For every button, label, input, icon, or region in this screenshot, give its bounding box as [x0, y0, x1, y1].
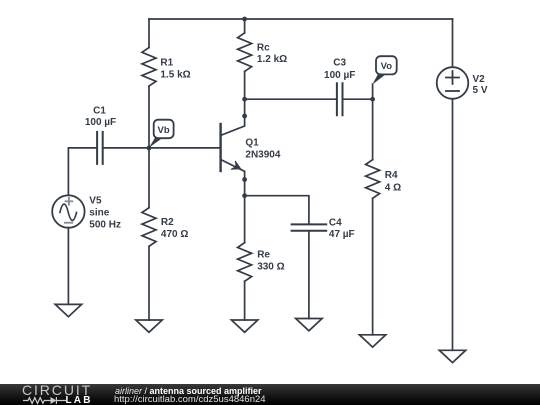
svg-text:Re: Re	[257, 250, 270, 261]
svg-text:5 V: 5 V	[473, 85, 488, 96]
node Vb dot	[147, 146, 152, 151]
wire R4 top lead	[372, 99, 374, 160]
wire emitter to junction	[244, 180, 246, 196]
svg-text:500 Hz: 500 Hz	[89, 220, 121, 231]
wire V2 bottom lead	[452, 99, 454, 350]
wire C4 bottom lead	[308, 232, 310, 319]
svg-text:C1: C1	[93, 105, 106, 116]
svg-text:100 µF: 100 µF	[85, 117, 116, 128]
ground V5	[55, 304, 81, 316]
label V2	[473, 74, 488, 96]
capacitor C3	[337, 83, 343, 115]
svg-text:V5: V5	[89, 195, 102, 206]
resistor R4	[366, 160, 380, 199]
label C3	[324, 58, 355, 81]
source V5	[52, 195, 84, 227]
label Q1	[245, 138, 280, 161]
transistor Q1	[221, 116, 245, 180]
wire Rc node to C3	[245, 98, 337, 100]
wire R4 bottom lead	[372, 198, 374, 334]
wire Vo stub	[372, 84, 374, 99]
source V2	[437, 67, 469, 99]
url line	[114, 394, 266, 405]
wire top rail	[149, 18, 453, 20]
svg-text:47 µF: 47 µF	[329, 229, 355, 240]
wire Rc top lead	[244, 19, 246, 33]
wire R2 top lead	[148, 148, 150, 208]
svg-text:Vo: Vo	[381, 61, 393, 72]
resistor R1	[142, 48, 156, 87]
label R4	[385, 170, 401, 193]
wire emitter to C4	[245, 196, 309, 224]
ground V2	[439, 350, 465, 362]
resistor Re	[238, 243, 252, 282]
wire C1 left lead	[68, 148, 97, 195]
wire Rc bottom lead	[244, 72, 246, 100]
ground C4	[296, 319, 322, 331]
svg-text:1.5 kΩ: 1.5 kΩ	[160, 70, 190, 81]
svg-text:100 µF: 100 µF	[324, 70, 355, 81]
node dot top rail	[242, 17, 247, 22]
wire R1 bottom lead to node Vb	[148, 86, 150, 148]
svg-text:C3: C3	[333, 58, 346, 69]
svg-text:R2: R2	[161, 217, 174, 228]
logo resistor-diode symbol	[23, 396, 67, 405]
capacitor C1	[97, 132, 103, 164]
resistor Rc	[238, 33, 252, 72]
capacitor C4	[292, 224, 327, 230]
label V5	[89, 195, 121, 230]
ground R2	[136, 320, 162, 332]
node dot collector	[242, 114, 247, 119]
label Rc	[257, 43, 287, 65]
svg-text:R4: R4	[385, 170, 398, 181]
svg-text:Rc: Rc	[257, 43, 270, 54]
flag Vb	[149, 120, 174, 148]
wire Re bottom lead	[244, 281, 246, 320]
svg-text:V2: V2	[473, 74, 486, 85]
ground Re	[231, 320, 257, 332]
wire R1 top lead	[148, 19, 150, 48]
svg-text:1.2 kΩ: 1.2 kΩ	[257, 54, 287, 65]
label Re	[257, 250, 284, 273]
node dot emitter	[242, 177, 247, 182]
svg-text:2N3904: 2N3904	[245, 149, 280, 160]
svg-text:sine: sine	[89, 207, 109, 218]
label R2	[161, 217, 188, 240]
title line	[115, 386, 262, 396]
svg-text:470 Ω: 470 Ω	[161, 229, 188, 240]
wire V5 bottom lead	[67, 228, 69, 305]
wire Re top lead	[244, 196, 246, 243]
label C4	[329, 217, 355, 240]
resistor R2	[142, 208, 156, 247]
footer bar	[0, 384, 540, 405]
svg-text:330 Ω: 330 Ω	[257, 261, 284, 272]
wire C1 right lead	[103, 147, 149, 149]
logo CIRCUIT word	[22, 382, 92, 398]
svg-text:4 Ω: 4 Ω	[385, 182, 401, 193]
svg-text:C4: C4	[329, 217, 342, 228]
svg-text:R1: R1	[160, 57, 173, 68]
ground R4	[359, 335, 385, 347]
wire C3 to node Vo	[343, 98, 373, 100]
wire R2 bottom lead	[148, 246, 150, 320]
svg-text:Vb: Vb	[158, 125, 170, 136]
flag Vo	[372, 56, 397, 84]
wire V2 top lead	[452, 19, 454, 67]
logo LAB word	[66, 395, 93, 405]
node Vo dot	[370, 97, 375, 102]
svg-text:Q1: Q1	[245, 138, 259, 149]
node dot Rc/C3	[242, 97, 247, 102]
node dot emitter junction	[242, 193, 247, 198]
wire collector stub	[244, 99, 246, 116]
label C1	[85, 105, 116, 128]
label R1	[160, 57, 190, 80]
wire base lead	[149, 147, 221, 149]
